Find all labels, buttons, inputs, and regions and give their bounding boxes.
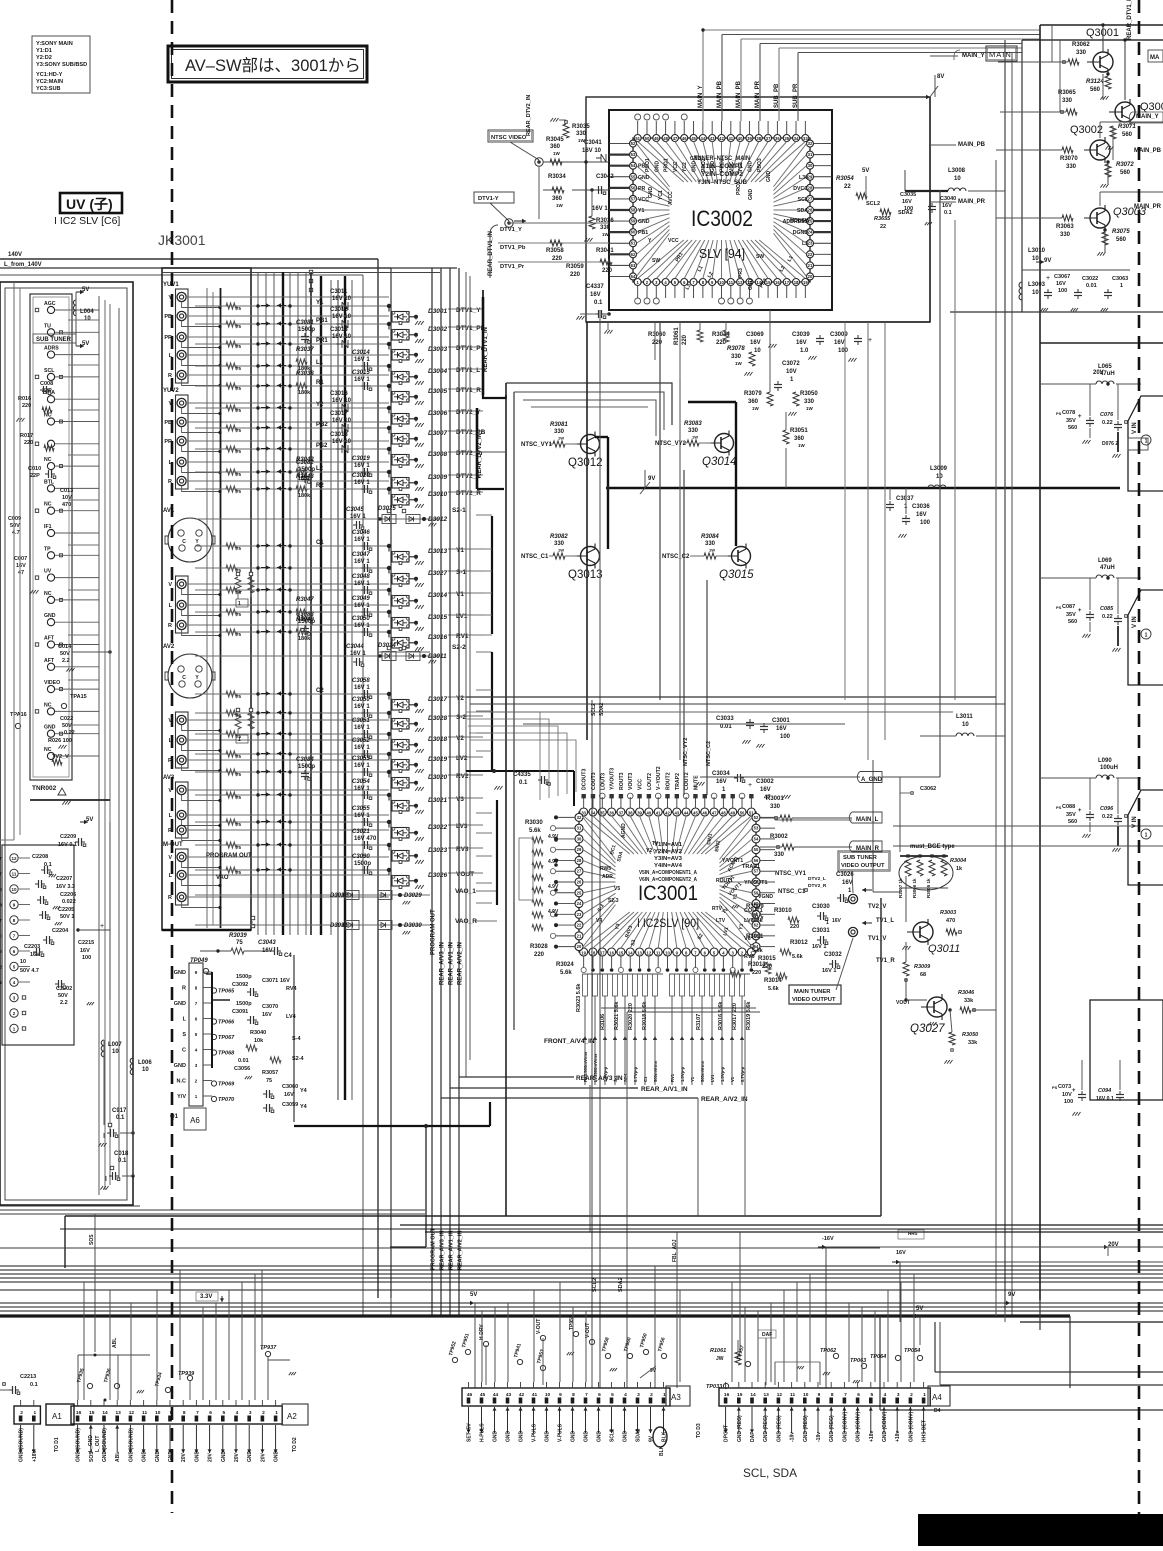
- svg-text:TV1_L: TV1_L: [876, 918, 894, 924]
- svg-text:41: 41: [656, 811, 661, 816]
- svg-text:REAR_A/V3_IN: REAR_A/V3_IN: [576, 1075, 623, 1082]
- svg-text:DGND: DGND: [793, 230, 809, 236]
- svg-text:10: 10: [719, 280, 724, 285]
- svg-text:C3032: C3032: [824, 952, 842, 958]
- svg-text:7: 7: [585, 1392, 588, 1398]
- svg-text:330: 330: [688, 428, 699, 434]
- svg-text:6: 6: [598, 1392, 601, 1398]
- svg-text:500mVrms: 500mVrms: [700, 1060, 705, 1082]
- svg-text:MONSW: MONSW: [790, 218, 810, 224]
- svg-text:A1: A1: [52, 1412, 62, 1421]
- svg-text:5: 5: [222, 1410, 225, 1416]
- svg-text:ROUT3: ROUT3: [619, 772, 625, 790]
- svg-text:C3048: C3048: [352, 574, 370, 580]
- svg-text:50V: 50V: [60, 651, 70, 657]
- svg-text:3: 3: [897, 1392, 900, 1398]
- svg-text:AGND: AGND: [621, 823, 627, 838]
- svg-text:D3018: D3018: [428, 736, 448, 743]
- svg-text:IC3001: IC3001: [638, 882, 698, 905]
- svg-text:PB1: PB1: [316, 318, 328, 324]
- svg-text:GND: GND: [584, 1431, 590, 1443]
- svg-text:45: 45: [480, 1392, 486, 1398]
- svg-text:7: 7: [844, 1392, 847, 1398]
- svg-text:14: 14: [102, 1410, 108, 1416]
- svg-text:1500p: 1500p: [298, 764, 315, 770]
- svg-text:C2204: C2204: [52, 928, 69, 934]
- svg-text:16V: 16V: [842, 880, 853, 886]
- svg-text:5: 5: [611, 1392, 614, 1398]
- svg-text:RV3: RV3: [456, 846, 469, 853]
- svg-text:16V 1: 16V 1: [350, 514, 366, 520]
- svg-text:REAR_A/V3_IN: REAR_A/V3_IN: [440, 1231, 446, 1270]
- svg-text:560: 560: [1068, 425, 1077, 431]
- svg-text:C007: C007: [14, 556, 27, 562]
- svg-text:TP067: TP067: [218, 1035, 235, 1041]
- svg-text:N.C: N.C: [177, 1079, 187, 1085]
- svg-text:+18v: +18v: [895, 1431, 901, 1442]
- svg-text:C2207: C2207: [56, 876, 72, 882]
- svg-text:TP066: TP066: [218, 1020, 235, 1026]
- svg-text:12: 12: [738, 280, 743, 285]
- svg-text:10: 10: [112, 1049, 119, 1055]
- svg-text:TRAP2: TRAP2: [675, 773, 681, 790]
- svg-text:D4: D4: [934, 1408, 941, 1414]
- svg-text:ME: ME: [0, 949, 2, 954]
- svg-text:R3023 5.6k: R3023 5.6k: [576, 983, 582, 1012]
- svg-text:R3062: R3062: [1072, 42, 1090, 48]
- svg-text:TV: TV: [652, 841, 659, 847]
- svg-text:TP068: TP068: [218, 1051, 235, 1057]
- svg-text:C3072: C3072: [782, 361, 800, 367]
- svg-text:R: R: [168, 895, 172, 901]
- svg-text:TO D2: TO D2: [292, 1437, 298, 1452]
- svg-text:0.1: 0.1: [519, 780, 528, 786]
- svg-text:GND (SOUND): GND (SOUND): [128, 1428, 134, 1462]
- svg-text:AV–SW部は、3001から: AV–SW部は、3001から: [185, 56, 361, 75]
- svg-text:16V 470: 16V 470: [354, 836, 377, 842]
- svg-text:SDA2: SDA2: [636, 1428, 642, 1442]
- svg-text:220: 220: [570, 272, 581, 278]
- svg-text:R3003: R3003: [940, 910, 956, 916]
- svg-text:R3079: R3079: [744, 391, 762, 397]
- svg-text:Q3002: Q3002: [1070, 124, 1103, 136]
- svg-text:220: 220: [552, 256, 563, 262]
- svg-text:1: 1: [33, 1410, 36, 1416]
- svg-text:R3071: R3071: [1118, 124, 1136, 130]
- svg-text:AVCC: AVCC: [668, 191, 674, 205]
- svg-text:C3021: C3021: [352, 829, 370, 835]
- svg-text:C2215: C2215: [78, 940, 94, 946]
- svg-text:C076: C076: [1100, 412, 1114, 418]
- svg-text:1: 1: [1120, 283, 1123, 289]
- svg-text:4.7: 4.7: [12, 530, 20, 536]
- svg-text:51: 51: [635, 136, 640, 141]
- svg-text:C3019: C3019: [352, 456, 370, 462]
- svg-text:1.0Vp-p: 1.0Vp-p: [680, 1066, 685, 1082]
- svg-text:47uH: 47uH: [1100, 565, 1115, 571]
- svg-text:C014: C014: [58, 644, 72, 650]
- svg-text:ADR: ADR: [602, 874, 613, 880]
- svg-text:Q3015: Q3015: [719, 569, 754, 581]
- svg-text:TP063: TP063: [850, 1358, 866, 1364]
- svg-text:1W: 1W: [806, 406, 814, 411]
- svg-text:D3008: D3008: [428, 451, 448, 458]
- svg-text:AFT: AFT: [44, 636, 55, 642]
- svg-text:1: 1: [1145, 833, 1148, 839]
- svg-text:33k: 33k: [968, 1040, 978, 1046]
- svg-text:D3027: D3027: [428, 570, 448, 577]
- svg-text:48: 48: [663, 136, 668, 141]
- svg-text:TV1_V: TV1_V: [868, 936, 886, 942]
- svg-text:MAIN_PB: MAIN_PB: [736, 80, 742, 108]
- svg-text:470: 470: [946, 918, 955, 924]
- svg-text:C3059: C3059: [282, 1102, 298, 1108]
- svg-text:S3: S3: [630, 939, 637, 946]
- svg-text:D3001: D3001: [428, 308, 448, 315]
- svg-text:PRO3: PRO3: [736, 181, 742, 195]
- svg-text:PS: PS: [1056, 411, 1062, 416]
- svg-text:NTSC_VY1: NTSC_VY1: [521, 442, 553, 448]
- svg-text:L3011: L3011: [956, 714, 973, 720]
- svg-text:17: 17: [784, 280, 789, 285]
- svg-text:D3029: D3029: [404, 893, 422, 899]
- svg-text:2.2: 2.2: [60, 1000, 68, 1006]
- svg-text:16V: 16V: [1056, 281, 1066, 287]
- svg-text:L3009: L3009: [930, 466, 948, 472]
- svg-text:C1: C1: [316, 540, 324, 546]
- svg-text:35V: 35V: [1066, 812, 1076, 818]
- svg-text:YC2:MAIN: YC2:MAIN: [36, 79, 63, 85]
- svg-text:33: 33: [581, 811, 586, 816]
- svg-text:MAIN_Y: MAIN_Y: [962, 53, 985, 59]
- svg-text:29: 29: [577, 847, 582, 852]
- svg-text:Y1: Y1: [316, 300, 324, 306]
- svg-text:ROUT2: ROUT2: [666, 772, 672, 790]
- svg-text:R3019 5.6k: R3019 5.6k: [746, 1001, 752, 1030]
- svg-text:Y/VOUT1: Y/VOUT1: [744, 880, 768, 886]
- svg-text:25: 25: [577, 890, 582, 895]
- svg-text:TRAP1: TRAP1: [742, 864, 760, 870]
- svg-text:C3062: C3062: [920, 786, 936, 792]
- svg-text:18: 18: [794, 280, 799, 285]
- svg-text:Q3014: Q3014: [702, 456, 737, 468]
- svg-text:75: 75: [236, 754, 242, 759]
- svg-text:SCL: SCL: [798, 197, 809, 203]
- svg-text:100uH: 100uH: [1100, 765, 1118, 771]
- svg-text:330: 330: [804, 399, 815, 405]
- svg-text:R3006 1k: R3006 1k: [912, 878, 917, 898]
- svg-text:C1: C1: [643, 1076, 648, 1082]
- svg-text:R3047: R3047: [296, 597, 314, 603]
- svg-text:D3022: D3022: [428, 824, 448, 831]
- svg-text:MAIN TUNER: MAIN TUNER: [794, 989, 831, 995]
- svg-text:C3053: C3053: [352, 756, 370, 762]
- svg-text:R1: R1: [316, 380, 324, 386]
- svg-text:L3003: L3003: [1028, 282, 1046, 288]
- svg-text:SDA: SDA: [797, 208, 808, 214]
- svg-text:0.1: 0.1: [944, 210, 952, 216]
- svg-text:GND: GND: [155, 1451, 161, 1463]
- svg-text:330: 330: [705, 541, 716, 547]
- svg-text:15: 15: [89, 1410, 95, 1416]
- svg-text:6: 6: [209, 1410, 212, 1416]
- svg-text:5.6k: 5.6k: [768, 986, 780, 992]
- svg-text:11: 11: [12, 872, 17, 877]
- svg-text:220: 220: [752, 970, 761, 976]
- svg-text:62: 62: [631, 252, 636, 257]
- svg-text:1W: 1W: [556, 203, 564, 208]
- svg-text:R3011: R3011: [746, 934, 764, 940]
- svg-text:C096: C096: [1100, 806, 1114, 812]
- svg-text:16V: 16V: [796, 340, 807, 346]
- svg-text:Y1:D1: Y1:D1: [36, 48, 52, 54]
- svg-text:R3075: R3075: [1112, 229, 1130, 235]
- svg-text:14: 14: [750, 1392, 756, 1398]
- svg-text:10: 10: [1032, 256, 1039, 262]
- svg-text:L007: L007: [108, 1042, 122, 1048]
- svg-text:V IN: V IN: [1132, 422, 1138, 434]
- svg-text:PS: PS: [1052, 1085, 1058, 1090]
- svg-text:UV (子): UV (子): [66, 196, 113, 212]
- svg-text:GND (CONV): GND (CONV): [856, 1411, 862, 1442]
- svg-text:10: 10: [954, 176, 961, 182]
- svg-text:L_OUT: L_OUT: [95, 1436, 101, 1452]
- svg-text:16V 10: 16V 10: [332, 439, 352, 445]
- svg-text:1W: 1W: [558, 548, 564, 553]
- svg-text:R3061: R3061: [674, 327, 680, 345]
- svg-text:A2: A2: [287, 1412, 297, 1421]
- svg-text:SCL, SDA: SCL, SDA: [743, 1466, 797, 1480]
- svg-text:20V: 20V: [234, 1452, 240, 1462]
- svg-text:39: 39: [747, 136, 752, 141]
- svg-text:GND: GND: [597, 1431, 603, 1443]
- svg-text:Q300: Q300: [1140, 101, 1163, 113]
- svg-text:10: 10: [155, 1410, 161, 1416]
- svg-text:ADRS: ADRS: [44, 346, 59, 352]
- svg-text:100: 100: [780, 734, 791, 740]
- svg-text:FRONT_A/V4_IN: FRONT_A/V4_IN: [544, 1038, 595, 1045]
- svg-text:75: 75: [236, 612, 242, 617]
- svg-text:GND: GND: [506, 1431, 512, 1443]
- svg-text:1: 1: [1145, 633, 1148, 639]
- svg-text:SUB_PR: SUB_PR: [793, 83, 799, 108]
- svg-text:L3: L3: [802, 241, 808, 247]
- svg-text:100: 100: [82, 955, 91, 961]
- svg-text:VCC: VCC: [638, 779, 644, 790]
- svg-text:A3: A3: [671, 1393, 681, 1402]
- svg-text:D3015: D3015: [428, 614, 448, 621]
- svg-text:GND (REG): GND (REG): [737, 1415, 743, 1442]
- svg-text:D3031: D3031: [330, 923, 348, 929]
- svg-text:R3020 220: R3020 220: [628, 1003, 634, 1030]
- svg-text:GND: GND: [247, 1451, 253, 1463]
- svg-text:PS: PS: [1056, 805, 1062, 810]
- svg-text:R3034: R3034: [548, 174, 566, 180]
- svg-text:V IN: V IN: [1132, 616, 1138, 628]
- svg-text:41: 41: [728, 136, 733, 141]
- svg-text:75: 75: [236, 449, 242, 454]
- svg-text:10: 10: [803, 1392, 809, 1398]
- svg-text:16V: 16V: [760, 787, 771, 793]
- svg-text:Q3027: Q3027: [910, 1023, 945, 1035]
- svg-text:330: 330: [1066, 164, 1077, 170]
- svg-text:43: 43: [674, 811, 679, 816]
- svg-text:D3028: D3028: [428, 715, 448, 722]
- svg-text:40: 40: [738, 136, 743, 141]
- svg-text:75: 75: [236, 590, 242, 595]
- svg-text:SET+5V: SET+5V: [467, 1423, 473, 1442]
- svg-text:C: C: [182, 675, 186, 681]
- svg-text:R3038: R3038: [296, 371, 314, 377]
- svg-text:75: 75: [236, 845, 242, 850]
- svg-text:DVCC: DVCC: [793, 186, 808, 192]
- svg-text:27: 27: [577, 869, 582, 874]
- svg-text:YC2: YC2: [682, 162, 688, 172]
- svg-text:C3050: C3050: [352, 697, 370, 703]
- svg-text:REAR_DTV1_IN: REAR_DTV1_IN: [1127, 0, 1133, 40]
- svg-text:75: 75: [236, 489, 242, 494]
- svg-text:GND: GND: [142, 1451, 148, 1463]
- svg-text:V5: V5: [614, 886, 620, 892]
- svg-text:R3004: R3004: [950, 858, 966, 864]
- svg-text:REAR_A/V3_IN: REAR_A/V3_IN: [440, 942, 446, 985]
- svg-text:16V 10: 16V 10: [332, 418, 352, 424]
- svg-text:Y/VOUT3: Y/VOUT3: [610, 768, 616, 790]
- svg-text:12: 12: [11, 856, 17, 861]
- svg-text:+: +: [1046, 275, 1050, 282]
- svg-text:C3017: C3017: [330, 411, 348, 417]
- svg-text:26: 26: [808, 208, 813, 213]
- svg-text:1W: 1W: [558, 436, 564, 441]
- svg-text:5V: 5V: [862, 168, 869, 174]
- svg-text:TO D3: TO D3: [696, 1423, 702, 1438]
- svg-text:36: 36: [775, 136, 780, 141]
- svg-text:0.22: 0.22: [64, 730, 75, 736]
- svg-text:16V: 16V: [590, 292, 601, 298]
- svg-text:5V: 5V: [470, 1292, 477, 1298]
- svg-text:RW5: RW5: [600, 866, 611, 872]
- svg-text:VIDEO OUTPUT: VIDEO OUTPUT: [841, 863, 885, 869]
- svg-text:63: 63: [631, 263, 636, 268]
- svg-text:S-2: S-2: [456, 714, 467, 721]
- svg-text:Y2IN–COMP2: Y2IN–COMP2: [701, 171, 743, 178]
- svg-text:IC3002: IC3002: [691, 206, 753, 231]
- svg-text:SOS: SOS: [89, 1234, 95, 1245]
- svg-text:Y2: Y2: [646, 848, 652, 854]
- svg-text:55: 55: [754, 847, 759, 852]
- svg-text:5.6k: 5.6k: [752, 948, 764, 954]
- svg-text:56: 56: [631, 185, 636, 190]
- svg-text:0.1: 0.1: [116, 1115, 125, 1121]
- svg-text:GND (REG): GND (REG): [763, 1415, 769, 1442]
- svg-text:0.1: 0.1: [30, 1382, 38, 1388]
- svg-text:R3060: R3060: [648, 332, 666, 338]
- svg-text:360: 360: [794, 436, 805, 442]
- svg-text:330: 330: [576, 131, 587, 137]
- svg-text:VAO: VAO: [216, 875, 229, 881]
- svg-text:V-PULS: V-PULS: [532, 1423, 538, 1442]
- svg-text:39: 39: [637, 811, 642, 816]
- svg-text:75: 75: [236, 546, 242, 551]
- svg-text:470: 470: [62, 502, 71, 508]
- svg-text:GND: GND: [274, 1451, 280, 1463]
- svg-text:C010: C010: [28, 466, 41, 472]
- svg-text:R3065: R3065: [1058, 90, 1076, 96]
- svg-text:75: 75: [236, 822, 242, 827]
- svg-text:23: 23: [577, 912, 582, 917]
- svg-text:24: 24: [577, 901, 582, 906]
- svg-text:180k: 180k: [298, 493, 311, 499]
- svg-text:C085: C085: [1100, 606, 1114, 612]
- svg-text:11: 11: [656, 951, 661, 956]
- svg-text:GND: GND: [174, 970, 186, 976]
- svg-text:45: 45: [693, 811, 698, 816]
- svg-text:75: 75: [236, 795, 242, 800]
- svg-text:D3002: D3002: [428, 326, 448, 333]
- svg-text:16V: 16V: [750, 340, 761, 346]
- svg-text:52: 52: [754, 815, 759, 820]
- svg-text:PBO3: PBO3: [757, 158, 763, 172]
- svg-text:75: 75: [236, 386, 242, 391]
- svg-text:11: 11: [790, 1392, 795, 1398]
- svg-text:14: 14: [628, 951, 633, 956]
- svg-text:GND (SOUND): GND (SOUND): [19, 1428, 25, 1462]
- svg-text:must_BGE type: must_BGE type: [910, 844, 955, 850]
- svg-text:MAIN_PR: MAIN_PR: [958, 199, 986, 205]
- svg-text:16: 16: [724, 1392, 730, 1398]
- svg-text:PR3: PR3: [738, 268, 744, 278]
- svg-text:RV2: RV2: [456, 773, 469, 780]
- svg-text:16V 1: 16V 1: [350, 651, 366, 657]
- svg-text:S2-3: S2-3: [608, 898, 619, 904]
- svg-text:I IC2SLV [90]: I IC2SLV [90]: [637, 916, 699, 930]
- svg-text:16V 1: 16V 1: [812, 944, 826, 950]
- svg-text:Y/V: Y/V: [177, 1094, 186, 1100]
- svg-text:R3050: R3050: [962, 1032, 978, 1038]
- svg-text:TPA15: TPA15: [70, 694, 87, 700]
- svg-text:50: 50: [645, 136, 650, 141]
- svg-text:C088: C088: [1062, 804, 1075, 810]
- svg-text:28: 28: [577, 858, 582, 863]
- svg-text:75: 75: [236, 366, 242, 371]
- svg-text:A6: A6: [190, 1116, 200, 1125]
- svg-text:42: 42: [719, 136, 724, 141]
- svg-text:61: 61: [631, 241, 636, 246]
- svg-text:GND (REG): GND (REG): [776, 1415, 782, 1442]
- svg-text:R3083: R3083: [684, 421, 702, 427]
- svg-text:L3010: L3010: [1028, 248, 1046, 254]
- svg-text:NC: NC: [44, 747, 52, 753]
- svg-text:C: C: [182, 539, 186, 545]
- svg-text:D3005: D3005: [428, 388, 448, 395]
- svg-text:ME: ME: [0, 887, 2, 892]
- svg-text:ET: ET: [0, 872, 2, 877]
- svg-text:GND: GND: [692, 161, 698, 173]
- svg-text:REAR_DTV1_IN: REAR_DTV1_IN: [488, 231, 494, 276]
- svg-text:2: 2: [20, 1410, 23, 1416]
- svg-text:R3107: R3107: [696, 1014, 702, 1030]
- svg-text:R3012: R3012: [790, 940, 808, 946]
- svg-text:180k: 180k: [298, 636, 311, 642]
- svg-text:GND (CONV): GND (CONV): [882, 1411, 888, 1442]
- svg-text:10: 10: [11, 887, 17, 892]
- svg-text:TP069: TP069: [218, 1082, 235, 1088]
- svg-text:C073: C073: [1058, 1084, 1071, 1090]
- svg-text:D076 Z: D076 Z: [1102, 441, 1118, 447]
- svg-text:C3036: C3036: [912, 504, 930, 510]
- svg-text:Y1: Y1: [456, 547, 464, 554]
- svg-text:12: 12: [647, 951, 652, 956]
